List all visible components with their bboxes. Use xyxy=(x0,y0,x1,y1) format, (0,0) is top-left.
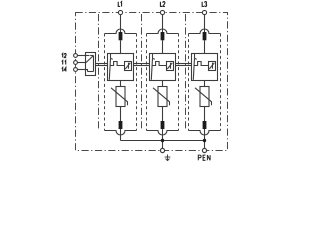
terminal 11 (circle on border) xyxy=(74,61,78,65)
varistor MOV1 xyxy=(111,87,128,107)
status indicator box U2 (small box with varistor mark) xyxy=(167,62,174,71)
wire monitoring unit to varistor L2 xyxy=(162,81,164,87)
wire varistor to bottom contact L1 xyxy=(120,107,122,122)
plug-in contact top L1 (black) xyxy=(119,32,123,40)
label 12 xyxy=(62,53,66,57)
wire contact to monitoring unit L2 xyxy=(162,40,164,53)
terminal L3 (circle on border) xyxy=(202,10,206,14)
wire contact to monitoring unit L1 xyxy=(120,40,122,53)
label L2 xyxy=(160,2,165,7)
monitoring disconnector unit U3 (box) xyxy=(192,54,218,81)
status indicator box U3 (small box with varistor mark) xyxy=(209,62,216,71)
status indicator box U1 (small box with varistor mark) xyxy=(125,62,132,71)
monitoring disconnector unit U2 (box) xyxy=(150,54,176,81)
wire L3 terminal to top contact xyxy=(204,15,206,33)
plug-in contact bottom L2 (black) xyxy=(161,121,165,129)
plug-in contact bottom L3 (black) xyxy=(203,121,207,129)
label PEN xyxy=(198,155,210,160)
wire bottom contact to PEN bus L3 xyxy=(204,129,206,141)
wire varistor to bottom contact L2 xyxy=(162,107,164,122)
section separator (dash-dot) between signal unit and L1 module xyxy=(98,14,100,130)
plug-in contact top L3 (black) xyxy=(203,32,207,40)
wire bottom contact to PEN bus L2 xyxy=(162,129,164,141)
module box L3 (dashed plug-in module outline with contact arcs) xyxy=(189,29,221,135)
device enclosure (dash-dot border) xyxy=(76,13,228,151)
wire terminal 14 to switch box xyxy=(77,69,88,71)
PEN terminal (circle on border) xyxy=(202,148,206,152)
monitoring disconnector unit U1 (box) xyxy=(108,54,134,81)
wire terminal 12 to switch box xyxy=(77,55,90,57)
label L1 xyxy=(118,2,121,7)
terminal L1 (circle on border) xyxy=(118,10,122,14)
PEN bus (solid) xyxy=(121,140,206,142)
disconnector symbol U2 (stub, tick, blade, thermal wave) xyxy=(151,54,166,80)
varistor MOV2 xyxy=(153,87,170,107)
disconnector symbol U3 (stub, tick, blade, thermal wave) xyxy=(193,54,208,80)
varistor MOV3 xyxy=(195,87,212,107)
terminal 12 (circle on border) xyxy=(74,54,78,58)
signal bus U1 to U2 (double line) xyxy=(134,64,150,66)
wire bus to earth terminal xyxy=(162,141,164,149)
wire L2 terminal to top contact xyxy=(162,15,164,33)
junction node at L3/PEN drop xyxy=(203,139,206,142)
earth symbol xyxy=(165,155,171,161)
wire terminal 11 to switch box xyxy=(77,62,86,64)
module box L1 (dashed plug-in module outline with contact arcs) xyxy=(105,29,137,135)
module box L2 (dashed plug-in module outline with contact arcs) xyxy=(147,29,179,135)
label 11 xyxy=(62,61,66,65)
section separator (dash-dot) between L1 and L2 modules xyxy=(141,14,143,130)
wire L1 terminal to top contact xyxy=(120,15,122,33)
terminal L2 (circle on border) xyxy=(160,10,164,14)
section separator (dash-dot) between L2 and L3 modules xyxy=(185,14,187,130)
earth terminal (circle on border) xyxy=(160,148,164,152)
wire varistor to bottom contact L3 xyxy=(204,107,206,122)
wire monitoring unit to varistor L3 xyxy=(204,81,206,87)
junction node at L2/earth drop xyxy=(161,139,164,142)
disconnector symbol U1 (stub, tick, blade, thermal wave) xyxy=(109,54,124,80)
wire bus to PEN terminal xyxy=(204,141,206,149)
terminal 14 (circle on border) xyxy=(74,68,78,72)
wire bottom contact to PEN bus L1 xyxy=(120,129,122,141)
plug-in contact top L2 (black) xyxy=(161,32,165,40)
wire contact to monitoring unit L3 xyxy=(204,40,206,53)
signal bus U2 to U3 (double line) xyxy=(176,64,192,66)
signal bus S1 to U1 (double line) xyxy=(96,64,108,66)
wire monitoring unit to varistor L1 xyxy=(120,81,122,87)
changeover contact S1 (blade and contacts) xyxy=(86,56,94,72)
plug-in contact bottom L1 (black) xyxy=(119,121,123,129)
label 14 xyxy=(62,68,67,72)
changeover contact S1 (box) xyxy=(86,53,96,76)
label L3 xyxy=(202,2,206,7)
